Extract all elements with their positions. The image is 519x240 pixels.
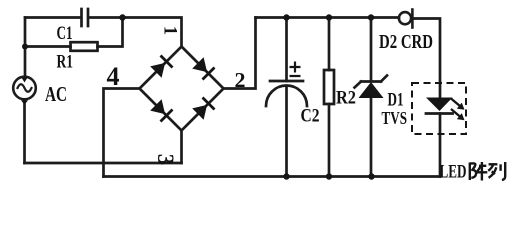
svg-text:R2: R2 xyxy=(336,88,356,109)
svg-text:4: 4 xyxy=(107,62,120,91)
bridge diode bars xyxy=(161,56,173,68)
label hanzi zhen (阵) hand-drawn xyxy=(470,162,488,181)
bridge diode bottom-left xyxy=(150,99,165,114)
svg-text:TVS: TVS xyxy=(382,108,408,128)
wire: top-left rail left part xyxy=(25,16,81,19)
resistor R2 lead top xyxy=(328,18,331,71)
wire: AC bottom horizontal to bridge pin3 xyxy=(25,162,182,165)
resistor R2 lead bottom xyxy=(328,104,331,177)
svg-text:AC: AC xyxy=(45,82,67,106)
diode D2 CRD symbol: cathode bar xyxy=(411,10,414,28)
node dot: D1 top xyxy=(368,14,374,20)
wire: from CRD to right corner, drop to LED box xyxy=(413,19,440,98)
bridge diode top-right xyxy=(192,57,207,72)
resistor R1 xyxy=(71,42,98,51)
wire: R1 branch left xyxy=(25,45,71,48)
svg-text:2: 2 xyxy=(235,68,246,92)
wire: bottom DC rail xyxy=(104,175,441,178)
svg-text:C2: C2 xyxy=(301,106,320,127)
capacitor C2 lead bottom xyxy=(285,86,288,177)
wire: top-right rail xyxy=(256,16,400,19)
diode D1 zener bar with hooks xyxy=(355,76,388,88)
wire: R1 branch right with riser to top rail xyxy=(98,18,123,47)
AC arrow mark bottom xyxy=(21,101,28,105)
svg-text:C1: C1 xyxy=(57,23,73,44)
node dot: R2 top xyxy=(326,14,332,20)
AC sine wave xyxy=(18,84,32,92)
node dot: R1/left wire junction xyxy=(22,44,28,50)
LED array dashed box xyxy=(412,83,466,134)
capacitor C2 top plate xyxy=(270,80,303,83)
label hanzi lie (列) hand-drawn xyxy=(488,162,505,180)
LED light arrow 1 head xyxy=(457,103,465,110)
wire: bridge pin3 riser xyxy=(180,131,183,164)
diode D1 leads xyxy=(370,18,373,177)
node dot: R2 bottom xyxy=(326,173,332,179)
resistor R2 body xyxy=(324,70,334,104)
svg-text:D2 CRD: D2 CRD xyxy=(379,31,433,53)
capacitor C2 lead top xyxy=(285,18,288,82)
C2 plus-minus sign xyxy=(290,62,301,77)
bridge diode bottom-right xyxy=(192,105,207,120)
AC source circle xyxy=(13,77,36,100)
wire: top-left rail right part to bridge pin1 riser xyxy=(89,18,182,48)
LED triangle xyxy=(426,98,453,112)
svg-text:LED: LED xyxy=(440,162,467,183)
svg-text:3: 3 xyxy=(153,154,178,166)
diode D2 CRD symbol: circle xyxy=(399,12,411,24)
svg-text:R1: R1 xyxy=(57,52,74,73)
node dot: C1/R1 right junction on top rail xyxy=(119,14,125,20)
wire: bridge pin2 horizontal and riser xyxy=(224,18,256,89)
node dot: D1 bottom xyxy=(368,173,374,179)
LED cathode bar xyxy=(426,112,453,115)
svg-text:1: 1 xyxy=(160,26,180,35)
diode D1 triangle xyxy=(359,82,384,98)
bridge rectifier diamond xyxy=(140,47,224,131)
wire: left vertical from top rail to AC source xyxy=(24,18,27,77)
AC arrow mark top xyxy=(22,78,28,83)
capacitor C1 xyxy=(82,9,89,26)
wire: AC bottom lead xyxy=(23,100,26,163)
LED lead bottom to rail xyxy=(439,114,442,177)
wire: bridge pin4 horizontal and drop to bottom rail xyxy=(104,89,140,177)
capacitor C2 curved bottom plate xyxy=(266,86,307,107)
LED light arrow 2 head xyxy=(457,113,465,120)
node dot: C2 top xyxy=(283,14,289,20)
LED light arrow shafts xyxy=(451,99,461,107)
bridge diode top-left xyxy=(150,63,165,78)
node dot: C2 bottom xyxy=(283,173,289,179)
